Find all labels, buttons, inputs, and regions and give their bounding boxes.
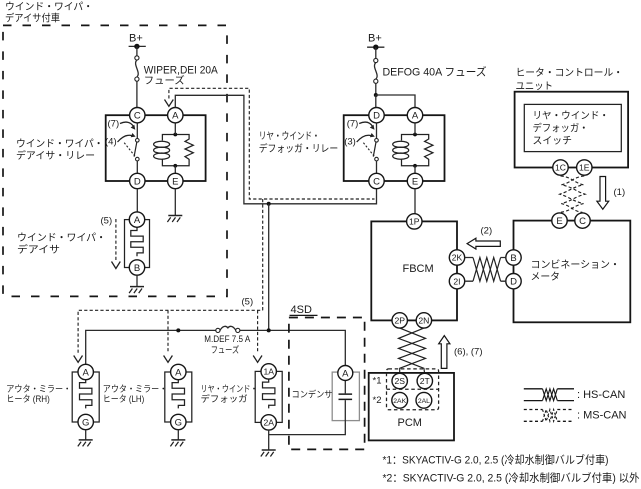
node branch to relay2 D and A: [374, 93, 378, 97]
annotation (1) hollow arrow down: [597, 177, 609, 210]
svg-text:デアイサ: デアイサ: [17, 243, 60, 256]
legend MS-CAN: [524, 410, 627, 422]
wire fuse1 to relay1 C: [136, 81, 138, 107]
svg-text:B+: B+: [129, 33, 143, 45]
svg-text:E: E: [556, 216, 562, 227]
svg-text:C: C: [134, 111, 141, 122]
svg-text:: MS-CAN: : MS-CAN: [577, 410, 627, 422]
terminal 1P: [407, 214, 422, 229]
combination meter box: [506, 213, 631, 322]
svg-text:デフォッガ・: デフォッガ・: [533, 122, 589, 135]
terminal 2I: [449, 274, 464, 289]
svg-text:2N: 2N: [418, 316, 429, 326]
svg-text:C: C: [579, 216, 586, 227]
legend HS-CAN: [524, 389, 626, 401]
svg-text:コンビネーション・: コンビネーション・: [531, 259, 621, 271]
svg-text:アウタ・ミラー・: アウタ・ミラー・: [6, 384, 71, 394]
terminal C: [130, 108, 145, 123]
windshield wiper deicer heater element: [125, 212, 150, 275]
svg-text:D: D: [373, 111, 380, 122]
terminal D: [506, 274, 521, 289]
svg-text:2P: 2P: [394, 316, 405, 326]
svg-text:ヒータ (LH): ヒータ (LH): [103, 394, 145, 404]
svg-text:1P: 1P: [409, 217, 420, 227]
outer mirror heater LH: [165, 364, 192, 446]
svg-text:2S: 2S: [394, 376, 405, 386]
terminal 2K: [449, 250, 464, 265]
ground below deicer B: [136, 275, 138, 286]
svg-text:(7): (7): [108, 119, 120, 130]
svg-text:(6), (7): (6), (7): [454, 347, 483, 358]
svg-text:WIPER,DEI 20A: WIPER,DEI 20A: [144, 65, 219, 77]
svg-text:FBCM: FBCM: [403, 263, 434, 275]
svg-text:G: G: [175, 418, 182, 429]
svg-text:フューズ: フューズ: [144, 74, 185, 87]
svg-text:2T: 2T: [420, 376, 431, 386]
coil L2: [393, 141, 409, 147]
outer mirror heater RH: [72, 364, 99, 446]
svg-text:2AK: 2AK: [393, 398, 406, 405]
svg-text:1A: 1A: [263, 367, 274, 377]
terminal E: [407, 173, 422, 188]
terminal C: [369, 173, 384, 188]
HS-CAN twisted pair FBCM to PCM: [399, 328, 426, 373]
annotation (2) hollow arrow left: [467, 238, 500, 249]
wire junction down to M.DEF line: [268, 204, 270, 331]
svg-text:(4): (4): [105, 137, 117, 148]
svg-text:コンデンサ: コンデンサ: [292, 389, 333, 400]
switch S2: [376, 123, 378, 139]
solid feed wire relay2 C to relay1 A: [175, 95, 376, 204]
svg-text:アウタ・ミラー・: アウタ・ミラー・: [103, 384, 168, 394]
svg-text:デフォッガ・リレー: デフォッガ・リレー: [259, 142, 339, 155]
terminal 2N: [416, 313, 431, 328]
capacitor C1 plates: [339, 394, 353, 399]
relay K1 windshield wiper deicer relay: [105, 108, 206, 189]
switch S1: [136, 123, 138, 139]
svg-text:1E: 1E: [579, 163, 590, 173]
terminal C: [575, 213, 590, 228]
svg-text:(2): (2): [481, 226, 493, 237]
svg-text:DEFOG 40A フューズ: DEFOG 40A フューズ: [383, 65, 487, 79]
svg-text:G: G: [82, 418, 89, 429]
svg-text:フューズ: フューズ: [211, 344, 240, 355]
svg-text:2I: 2I: [453, 276, 460, 286]
terminal 2AL: [416, 392, 432, 408]
svg-text:2A: 2A: [263, 418, 274, 428]
ground below relay1 E: [174, 189, 176, 216]
svg-text:スイッチ: スイッチ: [533, 135, 573, 147]
svg-text:リヤ・ウインド・: リヤ・ウインド・: [259, 131, 320, 143]
heater control unit box: [515, 67, 629, 175]
junction node: [267, 202, 271, 206]
svg-text:ウインド・ワイパ・: ウインド・ワイパ・: [17, 232, 106, 244]
dashed branch down to (5) line: [262, 199, 264, 310]
terminal 1C: [553, 160, 568, 175]
svg-text:D: D: [134, 177, 141, 188]
svg-text:(1): (1): [614, 187, 626, 198]
svg-text:A: A: [134, 215, 141, 226]
svg-text:M.DEF 7.5 A: M.DEF 7.5 A: [204, 334, 250, 344]
dashed feed wire from WIPER fuse area to rear circuits: [169, 88, 375, 199]
svg-text:A: A: [83, 368, 90, 379]
fuse F2 DEFOG 40A: [374, 58, 487, 83]
svg-text:デフォッガ: デフォッガ: [201, 393, 248, 404]
svg-text:ヒータ (RH): ヒータ (RH): [6, 394, 50, 404]
svg-text:4SD: 4SD: [291, 304, 312, 316]
svg-text:*1：SKYACTIV-G 2.0, 2.5 (冷却水制御バ: *1：SKYACTIV-G 2.0, 2.5 (冷却水制御バルブ付車): [383, 453, 609, 467]
variant enclosure dashed box: [3, 25, 227, 296]
B+ supply 2: [367, 33, 384, 59]
svg-text:デアイサ付車: デアイサ付車: [5, 11, 60, 24]
svg-text:リヤ・ウインド・: リヤ・ウインド・: [533, 110, 610, 122]
annotation (6),(7) hollow arrow up: [439, 336, 450, 369]
svg-text:ウインド・ワイパ・: ウインド・ワイパ・: [5, 1, 93, 13]
svg-text:A: A: [175, 368, 182, 379]
B+ supply 1: [129, 33, 146, 56]
FBCM module box: [371, 214, 464, 328]
fuse F3 M.DEF 7.5A: [204, 326, 250, 355]
terminal 1E: [577, 160, 592, 175]
terminal A: [407, 108, 422, 123]
wire relay1 D to deicer A: [136, 189, 138, 212]
svg-text:: HS-CAN: : HS-CAN: [577, 389, 625, 401]
terminal 2T: [417, 373, 432, 388]
svg-text:E: E: [172, 177, 178, 188]
svg-text:(7): (7): [347, 119, 359, 130]
terminal E: [552, 213, 567, 228]
HS-CAN twisted pair FBCM to meter: [465, 258, 506, 282]
resistor R1: [185, 139, 193, 159]
arrowheads to heater elements: [74, 356, 83, 363]
svg-text:C: C: [373, 177, 380, 188]
rear window defogger heater: [255, 364, 282, 457]
svg-text:リヤ・ウインド・: リヤ・ウインド・: [201, 384, 258, 394]
rear window defogger switch sub-box: [524, 104, 621, 151]
svg-text:B: B: [134, 263, 140, 274]
svg-text:2K: 2K: [452, 253, 463, 263]
svg-text:ヒータ・コントロール・: ヒータ・コントロール・: [516, 67, 624, 79]
M.DEF feed line: [86, 330, 346, 365]
fuse F1 WIPER,DEI 20A: [135, 56, 219, 87]
svg-text:(5): (5): [101, 216, 113, 227]
terminal 2S: [392, 373, 407, 388]
relay K2 rear window defogger relay: [344, 108, 445, 189]
svg-text:A: A: [172, 111, 179, 122]
MS-CAN twisted pair (dashed) unit to meter: [560, 176, 586, 213]
svg-text:B: B: [510, 253, 516, 264]
terminal D: [369, 108, 384, 123]
svg-text:B+: B+: [368, 33, 382, 45]
svg-text:ウインド・ワイパ・: ウインド・ワイパ・: [16, 138, 104, 150]
svg-text:D: D: [510, 277, 517, 288]
svg-text:A: A: [342, 369, 349, 380]
svg-text:*2: *2: [373, 395, 382, 406]
PCM module box: [369, 369, 454, 441]
wire relay2 E to FBCM 1P: [414, 189, 416, 214]
svg-text:(3): (3): [344, 137, 356, 148]
svg-text:*2：SKYACTIV-G 2.0, 2.5 (冷却水制御バ: *2：SKYACTIV-G 2.0, 2.5 (冷却水制御バルブ付車) 以外: [383, 471, 640, 485]
condenser (capacitor): [269, 366, 360, 435]
wire fuse2 to node: [375, 83, 377, 95]
svg-text:PCM: PCM: [398, 417, 422, 429]
terminal E: [168, 173, 183, 188]
dashed variant rect around terminals: [387, 369, 439, 410]
svg-text:デアイサ・リレー: デアイサ・リレー: [16, 149, 95, 162]
svg-text:1C: 1C: [555, 163, 566, 173]
svg-text:2AL: 2AL: [418, 398, 430, 405]
svg-text:E: E: [412, 177, 418, 188]
svg-text:A: A: [412, 111, 419, 122]
coil L1: [154, 141, 170, 147]
resistor R2: [425, 139, 433, 159]
svg-text:*1: *1: [373, 376, 382, 387]
terminal 2P: [392, 313, 407, 328]
arrow into relay1 A: [165, 100, 174, 107]
svg-text:メータ: メータ: [531, 271, 561, 283]
(5) distribution dashed line: [78, 310, 263, 353]
terminal D: [130, 173, 145, 188]
terminal B: [506, 250, 521, 265]
terminal 2AK: [392, 392, 408, 408]
svg-text:(5): (5): [242, 296, 254, 307]
terminal A: [168, 108, 183, 123]
